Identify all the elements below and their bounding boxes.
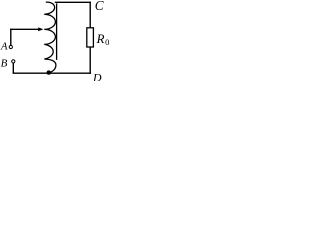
- inductor L1 winding (5 loops, autotransformer): [44, 2, 56, 72]
- core bar: [56, 3, 58, 60]
- svg-text:B: B: [1, 57, 8, 69]
- wire right lower (resistor to D corner): [89, 47, 91, 74]
- wire right upper (corner down to resistor): [89, 2, 91, 28]
- junction dot (coil bottom / bottom wire): [47, 70, 51, 74]
- svg-text:C: C: [95, 0, 104, 13]
- wire top (coil/core top to C corner): [55, 1, 91, 3]
- svg-text:D: D: [92, 70, 102, 81]
- wire bottom (B drop to D corner): [13, 72, 91, 74]
- wire tap horizontal (corner to arrow): [10, 28, 39, 30]
- resistor R0: [87, 28, 94, 47]
- terminal A (circle): [9, 45, 12, 48]
- wire A riser (terminal A up to tap corner): [10, 29, 12, 46]
- svg-text:A: A: [0, 41, 8, 52]
- slider arrowhead (tap arrow): [38, 27, 43, 31]
- terminal B (circle): [12, 60, 15, 63]
- wire B riser (terminal B down to bottom wire): [12, 63, 14, 73]
